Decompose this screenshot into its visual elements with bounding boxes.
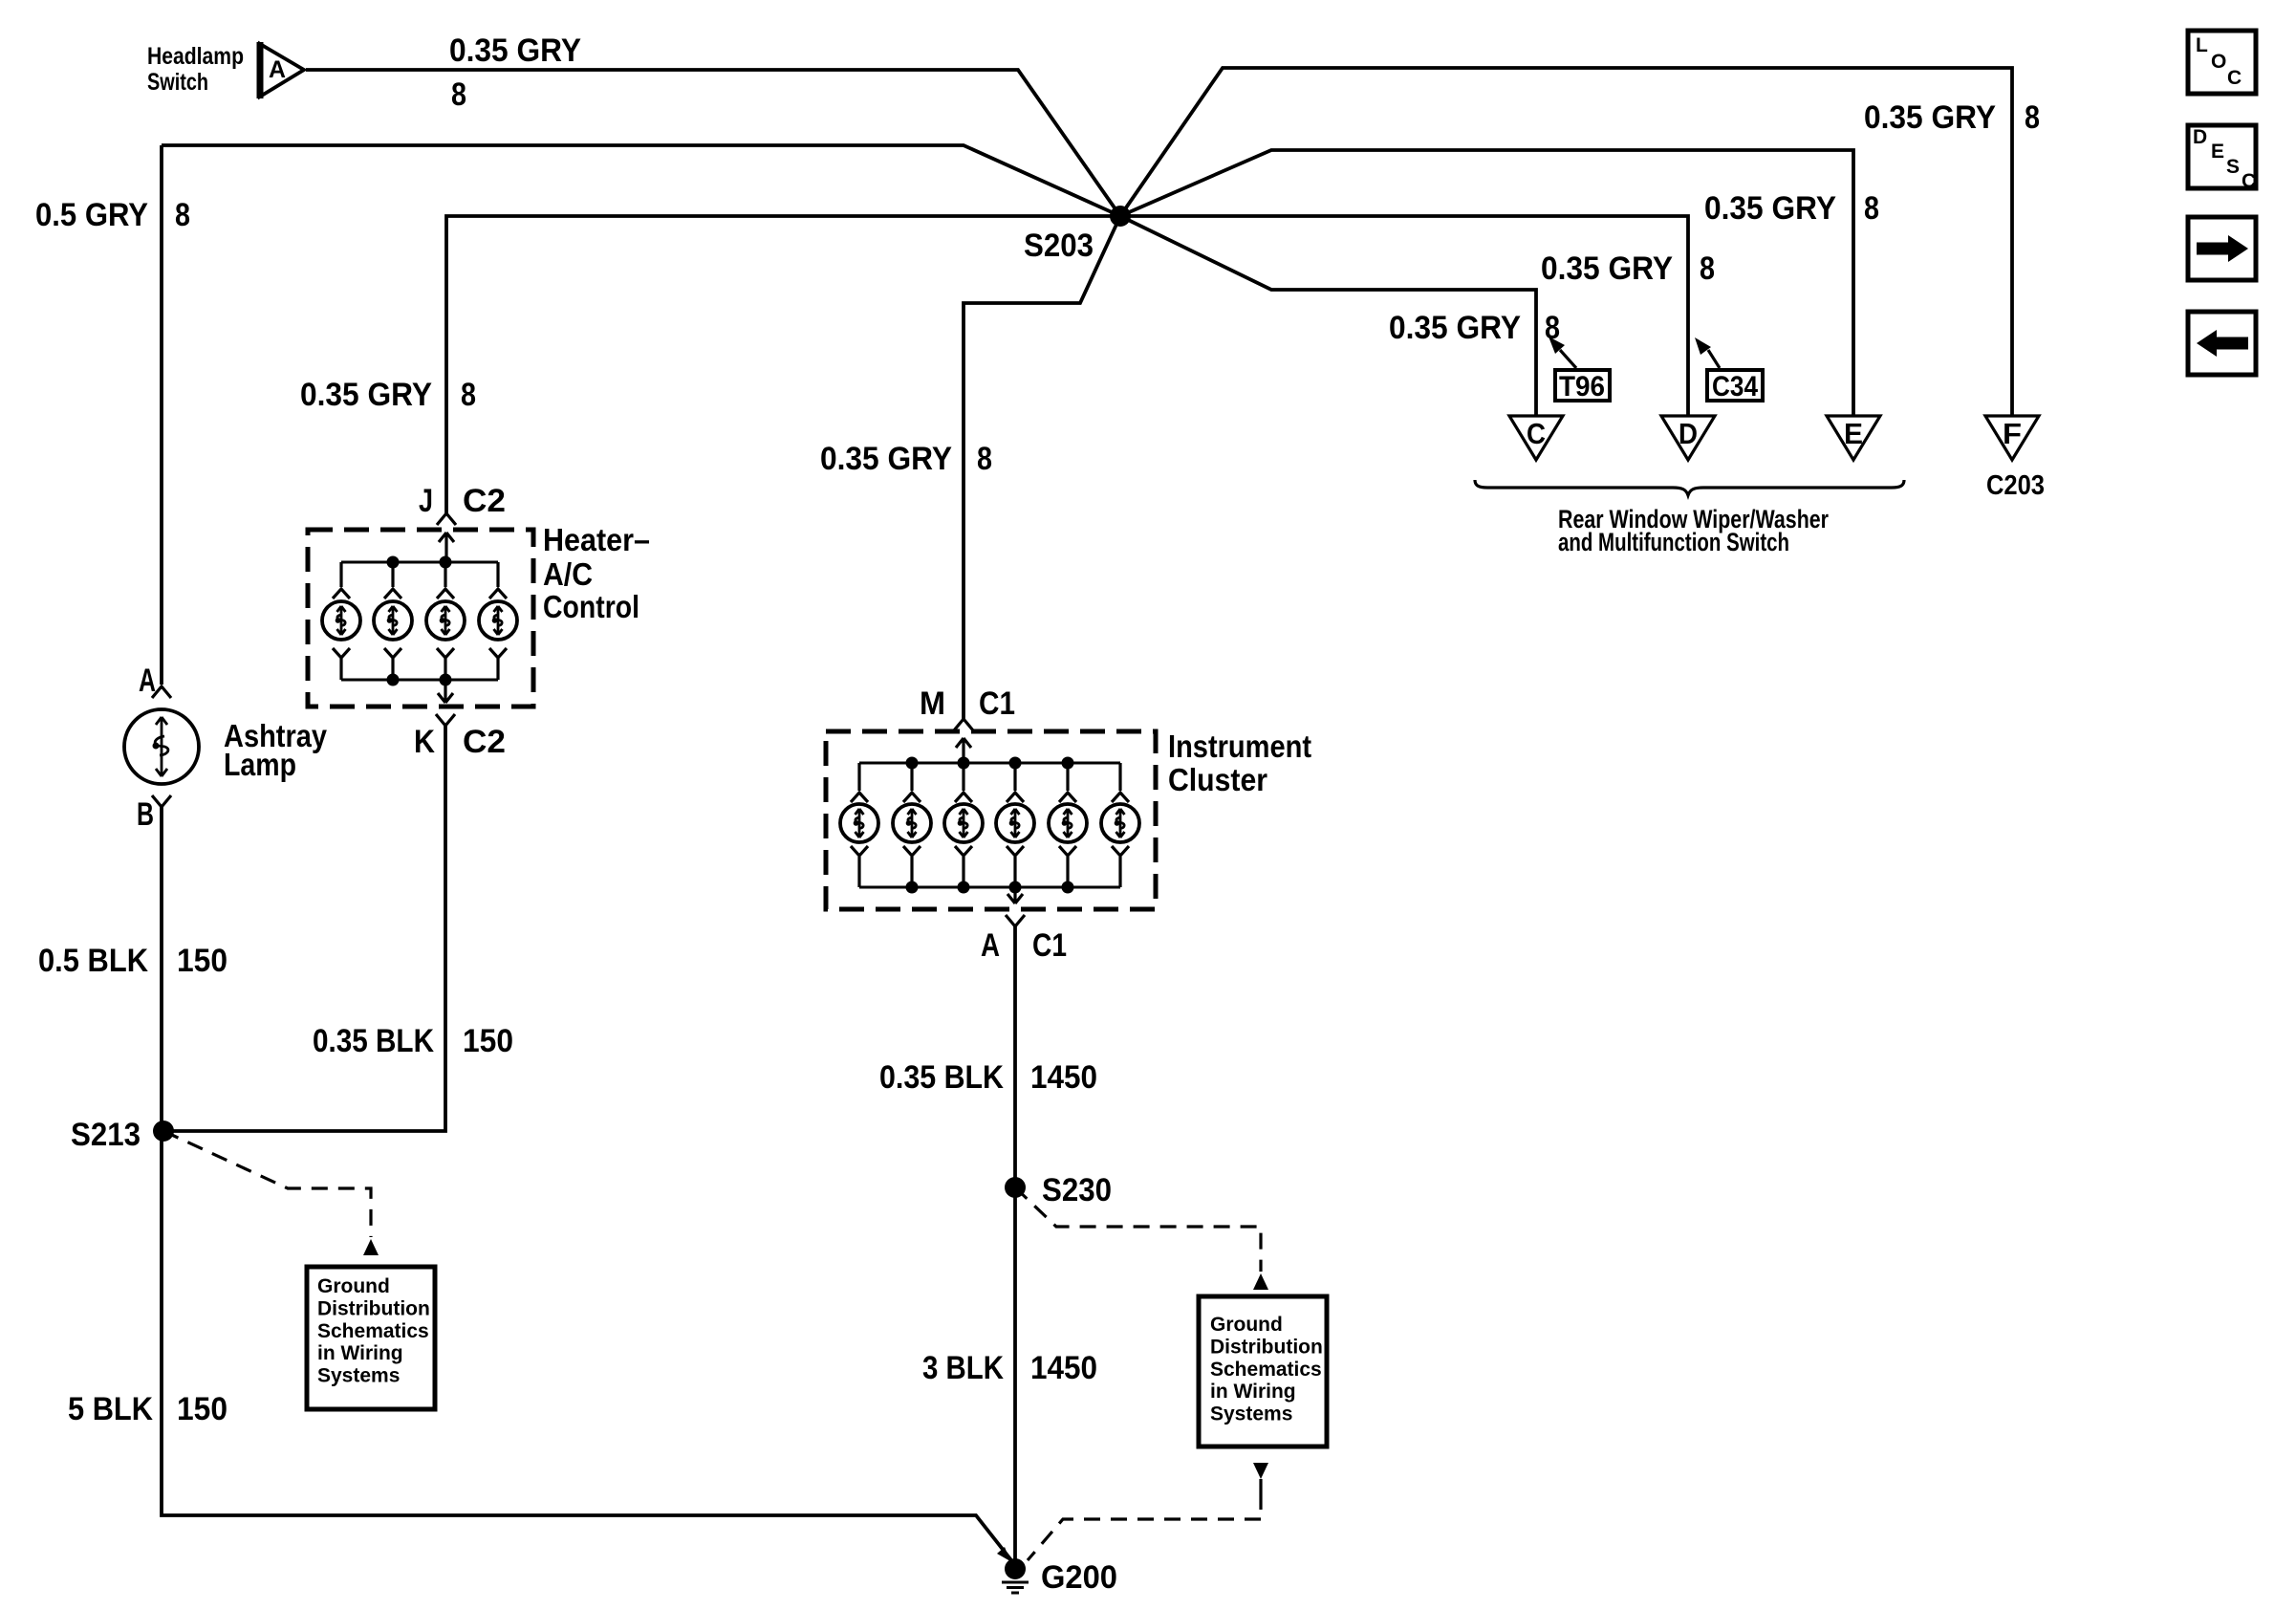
svg-text:Control: Control — [543, 589, 639, 624]
svg-text:Systems: Systems — [1210, 1403, 1292, 1425]
svg-text:O: O — [2211, 51, 2226, 73]
svg-text:Ground: Ground — [1210, 1314, 1283, 1336]
svg-text:F: F — [2003, 417, 2022, 450]
svg-text:S203: S203 — [1024, 228, 1094, 264]
svg-text:0.35 GRY: 0.35 GRY — [1541, 250, 1673, 287]
svg-text:150: 150 — [463, 1023, 513, 1059]
svg-text:8: 8 — [2025, 99, 2040, 136]
svg-text:C: C — [2227, 67, 2242, 89]
svg-text:C203: C203 — [1986, 470, 2045, 501]
svg-text:L: L — [2196, 34, 2208, 56]
svg-text:0.35 BLK: 0.35 BLK — [313, 1023, 434, 1059]
svg-text:T96: T96 — [1559, 371, 1605, 402]
svg-text:J: J — [419, 483, 433, 519]
svg-text:B: B — [137, 796, 154, 833]
svg-text:C2: C2 — [463, 483, 506, 519]
svg-text:S230: S230 — [1042, 1172, 1112, 1208]
svg-text:Distribution: Distribution — [317, 1297, 430, 1319]
svg-text:8: 8 — [977, 441, 992, 477]
svg-text:0.35 GRY: 0.35 GRY — [820, 441, 952, 477]
svg-text:C1: C1 — [1032, 927, 1067, 964]
svg-text:Systems: Systems — [317, 1365, 400, 1387]
svg-text:150: 150 — [177, 943, 227, 979]
svg-text:A: A — [269, 56, 286, 83]
svg-text:0.35 BLK: 0.35 BLK — [879, 1059, 1004, 1096]
svg-text:and Multifunction Switch: and Multifunction Switch — [1558, 528, 1789, 556]
svg-text:S213: S213 — [71, 1117, 141, 1153]
svg-text:Ground: Ground — [317, 1275, 390, 1297]
svg-text:8: 8 — [1864, 190, 1879, 227]
svg-text:0.5 GRY: 0.5 GRY — [35, 197, 148, 233]
svg-text:D: D — [1679, 417, 1698, 450]
svg-text:8: 8 — [451, 76, 466, 113]
svg-text:in Wiring: in Wiring — [317, 1342, 403, 1364]
svg-text:A: A — [981, 927, 1000, 964]
svg-text:C2: C2 — [463, 724, 506, 760]
svg-text:3 BLK: 3 BLK — [922, 1350, 1004, 1386]
svg-text:5 BLK: 5 BLK — [68, 1391, 153, 1427]
svg-text:K: K — [414, 724, 435, 760]
svg-text:A: A — [139, 663, 156, 699]
svg-text:Schematics: Schematics — [1210, 1359, 1322, 1381]
svg-text:Heater–: Heater– — [543, 522, 650, 557]
svg-text:Instrument: Instrument — [1168, 729, 1311, 764]
svg-text:0.35 GRY: 0.35 GRY — [1389, 310, 1521, 346]
svg-text:Cluster: Cluster — [1168, 762, 1267, 797]
svg-text:8: 8 — [461, 377, 476, 413]
svg-text:Schematics: Schematics — [317, 1320, 429, 1342]
svg-text:in Wiring: in Wiring — [1210, 1381, 1296, 1403]
svg-text:C: C — [2242, 170, 2256, 192]
svg-text:Switch: Switch — [147, 69, 208, 96]
svg-text:G200: G200 — [1041, 1559, 1117, 1596]
svg-text:8: 8 — [175, 197, 190, 233]
svg-text:0.35 GRY: 0.35 GRY — [449, 33, 581, 69]
svg-text:C34: C34 — [1712, 371, 1758, 402]
svg-text:D: D — [2193, 126, 2207, 148]
svg-text:0.35 GRY: 0.35 GRY — [1704, 190, 1836, 227]
svg-text:Distribution: Distribution — [1210, 1336, 1323, 1358]
svg-text:E: E — [1844, 417, 1863, 450]
svg-text:M: M — [920, 685, 945, 722]
svg-text:1450: 1450 — [1030, 1350, 1097, 1386]
svg-text:E: E — [2211, 141, 2224, 163]
svg-text:8: 8 — [1545, 310, 1560, 346]
svg-text:Lamp: Lamp — [224, 747, 296, 782]
svg-text:0.35 GRY: 0.35 GRY — [1864, 99, 1996, 136]
svg-text:0.35 GRY: 0.35 GRY — [300, 377, 432, 413]
svg-text:150: 150 — [177, 1391, 227, 1427]
svg-text:S: S — [2226, 156, 2240, 178]
svg-text:8: 8 — [1700, 250, 1715, 287]
svg-text:1450: 1450 — [1030, 1059, 1097, 1096]
svg-text:A/C: A/C — [543, 556, 593, 592]
svg-text:C: C — [1527, 417, 1546, 450]
svg-text:Headlamp: Headlamp — [147, 43, 244, 70]
svg-text:0.5 BLK: 0.5 BLK — [38, 943, 148, 979]
svg-text:C1: C1 — [979, 685, 1015, 722]
